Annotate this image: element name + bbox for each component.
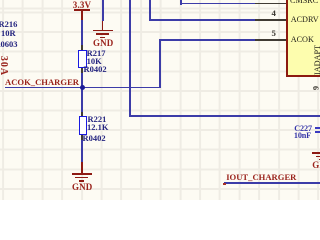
pin number 5 bbox=[272, 29, 276, 37]
pin stub R221 bottom bbox=[81, 135, 83, 140]
wire IOUT_CHARGER bbox=[224, 182, 320, 184]
wire to pin 4 bbox=[149, 0, 151, 21]
pin name IADAPT rotated (bottom pin) bbox=[314, 44, 320, 74]
value 10nF bbox=[294, 132, 311, 140]
designator R221 bbox=[88, 115, 107, 123]
ground GND top bbox=[102, 0, 104, 21]
capacitor C227 bbox=[315, 127, 320, 129]
pin name ACDRV bbox=[291, 16, 319, 24]
pin stub R217 bottom bbox=[81, 68, 83, 73]
pin stub R221 top bbox=[81, 112, 83, 116]
designator R217 bbox=[87, 49, 106, 57]
wire R217 to junction to R221 bbox=[81, 73, 83, 112]
no-ERC marker bbox=[223, 183, 225, 186]
footprint R0402 bbox=[84, 65, 107, 73]
junction dot bbox=[80, 85, 85, 90]
ground GND bottom bbox=[81, 162, 83, 174]
resistor R216 text block (symbol off-canvas left) bbox=[0, 20, 17, 28]
net label 30A (rotated, left edge) bbox=[0, 56, 7, 76]
IC U? body bbox=[286, 0, 320, 77]
wire to pin 5 (ACOK) bbox=[159, 39, 161, 88]
value 10K bbox=[87, 57, 102, 65]
value 12.1K bbox=[87, 123, 109, 131]
wire vertical x130 bbox=[129, 0, 131, 116]
power port 3.3V bar bbox=[74, 9, 90, 11]
pin 4 line bbox=[255, 19, 286, 21]
wire ACOK_CHARGER horizontal bbox=[5, 87, 161, 89]
power port 3.3V label bbox=[73, 1, 91, 9]
pin name CMSRC bbox=[290, 0, 318, 5]
resistor R217 bbox=[78, 50, 87, 69]
footprint R0402 bbox=[83, 134, 106, 142]
wire horizontal y116 bbox=[129, 115, 320, 117]
power port 3.3V stem bbox=[81, 10, 83, 20]
resistor R221 bbox=[79, 116, 88, 135]
wire R221 to GND bbox=[81, 140, 83, 163]
pin number 6 rotated bbox=[311, 86, 319, 90]
pin stub R217 top bbox=[81, 45, 83, 50]
net label IOUT_CHARGER bbox=[226, 173, 296, 181]
wire to pin 3 bbox=[180, 0, 182, 5]
pin 5 line bbox=[255, 39, 286, 41]
pin name ACOK bbox=[291, 36, 314, 44]
designator C227 bbox=[294, 125, 312, 133]
net label ACOK_CHARGER bbox=[5, 78, 79, 86]
pin 3 line bbox=[255, 3, 286, 5]
ground GND right bbox=[312, 152, 320, 154]
wire 3.3V to R217 bbox=[81, 20, 83, 46]
pin number 4 bbox=[272, 9, 276, 17]
